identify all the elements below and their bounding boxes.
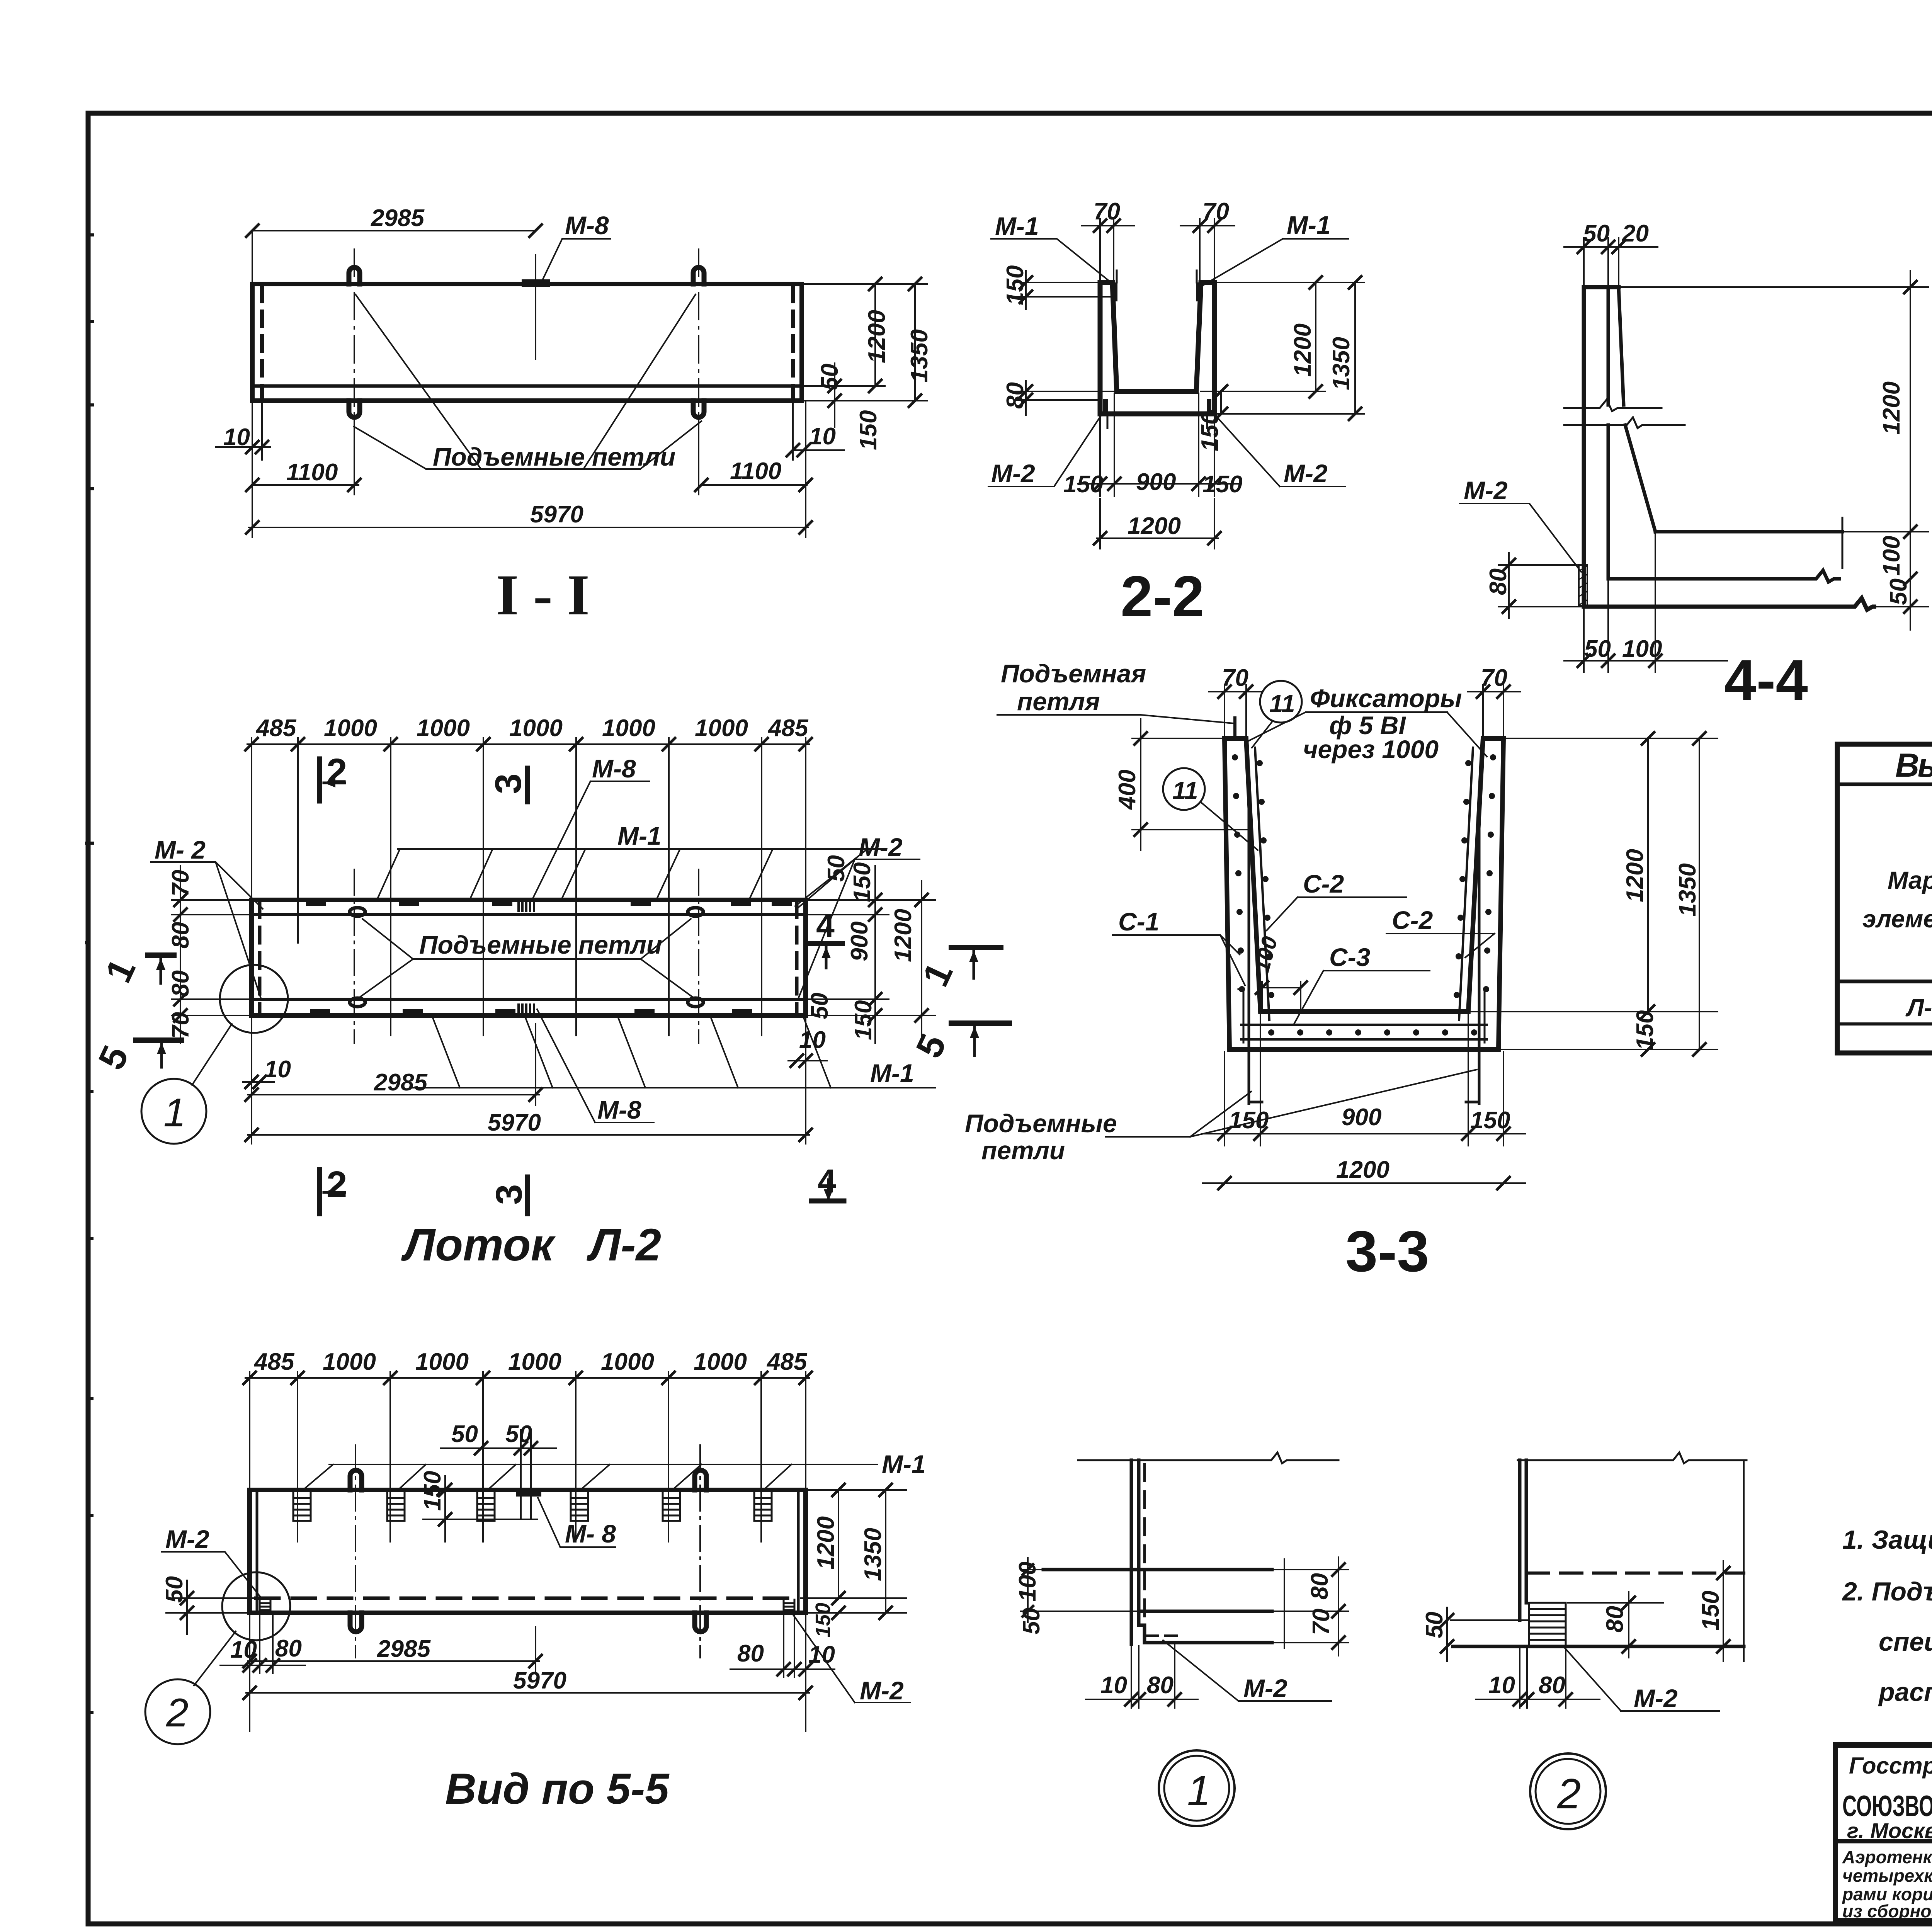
5-5 bottom dims 10 80 left <box>220 1615 305 1673</box>
detail 1 slab top line <box>1043 1568 1272 1571</box>
svg-text:485: 485 <box>767 715 809 742</box>
svg-text:1200: 1200 <box>1336 1156 1389 1183</box>
svg-text:1100: 1100 <box>730 458 781 485</box>
balloon detail 1 <box>1159 1750 1235 1826</box>
svg-text:80: 80 <box>167 970 194 997</box>
3-3 dim 400 left <box>1132 719 1248 850</box>
title block left row line <box>1835 1839 1932 1844</box>
svg-text:Л- 2: Л- 2 <box>1905 994 1932 1022</box>
svg-text:1350: 1350 <box>1674 863 1701 917</box>
svg-text:М-2: М-2 <box>1634 1684 1678 1713</box>
balloon circle 1 <box>141 1079 206 1144</box>
section mark 4 top <box>809 941 842 946</box>
detail 2 top line with break <box>1518 1452 1747 1463</box>
svg-text:150: 150 <box>849 862 876 902</box>
svg-text:3: 3 <box>488 774 529 794</box>
svg-text:150: 150 <box>850 1000 877 1040</box>
5-5 M-8 mark top middle <box>520 1490 538 1497</box>
svg-text:50: 50 <box>806 993 833 1019</box>
svg-text:50: 50 <box>451 1421 478 1447</box>
5-5 dim 5970 <box>246 1615 809 1731</box>
plan M-1 bottom right leader <box>410 1018 935 1088</box>
detail 2 M-2 leader <box>1564 1647 1719 1711</box>
3-3 left wall rebar line <box>1255 748 1269 1020</box>
detail 1 M-2 hidden plate dashed <box>1146 1636 1178 1643</box>
svg-text:М-2: М-2 <box>1284 459 1328 488</box>
title block outer box <box>1835 1745 1932 1920</box>
5-5 dims 50 50 <box>440 1430 556 1519</box>
plan right dim lines <box>788 866 935 1061</box>
3-3 bottom dim chain 150-900-150 <box>1202 1014 1526 1146</box>
svg-text:Аэротенки- смесители: Аэротенки- смесители <box>1842 1847 1932 1867</box>
wall outline 4-4 upper <box>1584 287 1619 603</box>
detail 1 wall dashed line <box>1143 1464 1146 1640</box>
dim 1100 left line 1-1 <box>252 418 359 495</box>
svg-text:80: 80 <box>1147 1672 1173 1699</box>
5-5 M-8 label leader <box>538 1498 615 1547</box>
svg-text:1000: 1000 <box>324 715 377 742</box>
svg-text:400: 400 <box>1114 770 1141 810</box>
wall inner line a 4-4 <box>1607 287 1610 405</box>
plan detail circle left end <box>220 965 288 1033</box>
plan bottom edge anchor marks M-1 <box>313 1009 749 1015</box>
svg-text:150: 150 <box>1202 471 1242 498</box>
svg-text:1200: 1200 <box>864 310 890 363</box>
3-3 right wall rebar line <box>1459 748 1473 1020</box>
svg-text:70: 70 <box>167 870 194 896</box>
svg-text:10: 10 <box>799 1027 826 1053</box>
svg-text:2985: 2985 <box>374 1069 428 1096</box>
svg-text:485: 485 <box>766 1349 808 1375</box>
svg-text:М-8: М-8 <box>565 211 609 240</box>
M-1 embed right 2-2 <box>1196 285 1201 299</box>
svg-text:1350: 1350 <box>860 1528 886 1581</box>
plan M-8 hatch mark bottom <box>519 1005 534 1015</box>
svg-text:М-2: М-2 <box>165 1525 209 1553</box>
5-5 left double line <box>256 1492 259 1611</box>
dim 1350 vertical right 1-1 <box>914 284 916 401</box>
dim 1100 right line 1-1 <box>699 418 807 495</box>
svg-text:10: 10 <box>223 424 250 451</box>
svg-text:50: 50 <box>816 364 843 390</box>
5-5 M-2 right plate <box>784 1600 794 1613</box>
plan M-8 hatch mark top <box>519 900 534 911</box>
dim 5970 line 1-1 <box>249 402 808 537</box>
svg-text:четырехкоридорные с разме.: четырехкоридорные с разме. <box>1842 1866 1932 1886</box>
svg-text:50: 50 <box>1583 220 1610 247</box>
svg-text:1. Защитный слой бетона - 2: 1. Защитный слой бетона - 20мм. <box>1842 1525 1932 1554</box>
svg-text:2-2: 2-2 <box>1121 564 1204 629</box>
svg-text:70: 70 <box>1481 665 1507 691</box>
M-2 embed right 2-2 <box>1207 401 1211 413</box>
svg-text:3-3: 3-3 <box>1345 1219 1429 1284</box>
detail 1 M-2 leader <box>1163 1640 1331 1701</box>
bottom exterior line 4-4 <box>1584 598 1874 610</box>
svg-text:2: 2 <box>1557 1770 1581 1818</box>
dim chain 150-900-150 2-2 <box>1078 393 1238 497</box>
3-3 bottom dim 1200 <box>1202 1182 1526 1184</box>
svg-text:Подъемные петли: Подъемные петли <box>419 930 662 959</box>
svg-text:специальной траверсой, не д: специальной траверсой, не допуская перед… <box>1879 1627 1932 1656</box>
plan dim extension verticals <box>252 738 806 1036</box>
svg-text:1200: 1200 <box>890 909 917 962</box>
3-3 dim 1200 vertical right <box>1647 738 1649 1012</box>
detail 2 dim 50 extension <box>1447 1607 1527 1662</box>
svg-text:150: 150 <box>811 1603 835 1638</box>
svg-text:С-3: С-3 <box>1329 943 1370 971</box>
M-8 plate mark on top edge <box>526 279 546 287</box>
detail 1 slab mid line <box>1139 1610 1272 1613</box>
5-5 M-2 left leader <box>162 1552 262 1599</box>
section mark 1 right <box>951 945 1001 950</box>
svg-text:5970: 5970 <box>530 501 583 528</box>
svg-text:1200: 1200 <box>1878 381 1905 435</box>
plan M-2 right leaders <box>797 859 920 998</box>
3-3 top dim 70 left <box>1209 685 1263 736</box>
lifting loop bottom-left 1-1 <box>349 401 360 417</box>
svg-text:1000: 1000 <box>694 1349 747 1375</box>
svg-text:11: 11 <box>1269 690 1295 718</box>
balloon detail 2 <box>1530 1753 1606 1829</box>
svg-text:485: 485 <box>253 1349 295 1375</box>
svg-text:10: 10 <box>809 423 836 450</box>
svg-text:I - I: I - I <box>496 563 590 627</box>
detail 1 right dim vertical <box>1274 1557 1349 1656</box>
svg-text:СОЮЗВОДОКАНАЛПРОЕКТ: СОЮЗВОДОКАНАЛПРОЕКТ <box>1842 1790 1932 1823</box>
svg-text:петля: петля <box>1017 687 1100 716</box>
svg-text:80: 80 <box>1485 568 1512 595</box>
svg-text:11: 11 <box>1172 777 1198 804</box>
dim 10 right 1-1 <box>793 402 844 460</box>
balloon 2 leader <box>194 1631 236 1685</box>
5-5 outline <box>250 1490 806 1613</box>
3-3 fixator circle 11 left <box>1163 768 1205 810</box>
3-3 label C-2 upper leaders <box>1267 897 1406 930</box>
plan bottom dim 10 <box>243 1081 274 1083</box>
beam left dashed edge <box>260 287 264 399</box>
svg-text:80: 80 <box>1306 1573 1333 1600</box>
svg-text:5970: 5970 <box>513 1667 566 1694</box>
svg-text:М-2: М-2 <box>859 833 903 861</box>
section mark 5 left <box>136 1037 182 1043</box>
loop axis dash-dot right <box>698 249 699 448</box>
5-5 M-2 right leader <box>793 1614 910 1702</box>
dim 1350 vertical right 2-2 <box>1354 282 1356 414</box>
5-5 left dim 50 <box>166 1580 253 1634</box>
svg-text:Подъемные петли: Подъемные петли <box>433 442 675 471</box>
svg-text:1000: 1000 <box>602 715 655 742</box>
svg-text:Выборка стали на 1 элемент: Выборка стали на 1 элемент <box>1895 747 1932 784</box>
3-3 label C-1 leaders <box>1113 935 1245 985</box>
right dim extensions 1-1 <box>804 284 927 401</box>
svg-text:900: 900 <box>846 922 873 961</box>
svg-text:М-2: М-2 <box>991 459 1035 488</box>
detail 2 right vertical thin <box>1743 1460 1745 1662</box>
detail 2 dim 150 right <box>1723 1561 1724 1662</box>
svg-text:1000: 1000 <box>415 1349 469 1375</box>
svg-text:900: 900 <box>1136 469 1176 495</box>
section mark 1 left <box>148 952 174 958</box>
svg-text:1200: 1200 <box>1128 513 1181 539</box>
plan left dim extensions <box>172 866 249 1043</box>
svg-text:М-1: М-1 <box>995 212 1039 240</box>
svg-text:1000: 1000 <box>509 715 563 742</box>
svg-text:70: 70 <box>1202 198 1229 225</box>
plan loops ovals <box>350 908 365 916</box>
detail 2 dim 80 right of plate <box>1568 1592 1663 1658</box>
3-3 label C-3 leader <box>1294 971 1430 1023</box>
3-3 top dim 70 right <box>1468 685 1520 736</box>
svg-text:С-2: С-2 <box>1392 906 1433 934</box>
3-3 label C-2 right leaders <box>1386 934 1495 957</box>
beam right dashed edge <box>791 287 795 399</box>
leader podemnye petli 1-1 <box>354 294 701 469</box>
svg-text:10: 10 <box>1488 1672 1515 1699</box>
plan inner wall lines <box>252 915 806 999</box>
steel table outer box <box>1837 744 1932 1053</box>
3-3 corner bar right <box>1484 989 1486 1043</box>
3-3 fixator circle 11 right <box>1260 681 1302 723</box>
svg-text:150: 150 <box>855 410 882 450</box>
frame registration ticks left border <box>85 235 94 1713</box>
3-3 corner bar left <box>1238 989 1243 1043</box>
svg-text:1200: 1200 <box>813 1516 839 1570</box>
5-5 bottom dims 80 10 right <box>730 1615 835 1677</box>
svg-text:2985: 2985 <box>371 205 425 231</box>
steel table data row <box>1905 994 1932 1022</box>
beam outline 1-1 <box>252 284 802 401</box>
svg-text:М-2: М-2 <box>1243 1674 1287 1702</box>
svg-text:из сборного железобетона: из сборного железобетона <box>1842 1901 1932 1921</box>
dim 70 right wall 2-2 <box>1180 219 1235 281</box>
detail 1 bottom dims <box>1086 1645 1198 1708</box>
svg-text:80: 80 <box>1602 1606 1628 1633</box>
plan left dashed line <box>258 902 262 1014</box>
ticks 2-2 <box>1094 219 1106 232</box>
slab interior top 4-4 <box>1655 530 1842 534</box>
svg-text:50: 50 <box>1584 636 1611 662</box>
svg-text:4-4: 4-4 <box>1724 648 1808 713</box>
lifting loop bottom-right 1-1 <box>693 401 704 417</box>
svg-text:2: 2 <box>327 751 347 793</box>
3-3 slab rebar lines <box>1241 1025 1487 1039</box>
wall inner face b2 4-4 <box>1625 425 1655 532</box>
plan loop axis lines <box>354 869 699 1043</box>
5-5 anchor plates hatched <box>293 1492 772 1521</box>
dim 70 left wall 2-2 <box>1082 219 1134 281</box>
detail 2 hidden dashed line <box>1527 1571 1744 1575</box>
detail 1 left dim lines <box>1020 1557 1137 1623</box>
svg-text:150: 150 <box>1197 412 1223 451</box>
3-3 dim 100 small <box>1262 981 1301 1013</box>
dim 2985 line 1-1 <box>252 231 536 281</box>
svg-text:100: 100 <box>1878 536 1905 576</box>
svg-text:10: 10 <box>808 1641 835 1668</box>
slab vertical tick right 4-4 <box>1842 518 1844 568</box>
3-3 fixator leaders <box>1202 722 1272 850</box>
section mark 3 bottom <box>525 1177 530 1214</box>
svg-text:М- 2: М- 2 <box>155 835 206 864</box>
svg-text:С-1: С-1 <box>1118 907 1159 936</box>
svg-text:1200: 1200 <box>1622 849 1648 902</box>
steel table title line <box>1837 782 1932 786</box>
svg-text:150: 150 <box>1470 1107 1510 1134</box>
detail 2 M-2 plate hatched <box>1529 1603 1566 1646</box>
3-3 fiksatory label underline and leaders <box>1248 712 1487 757</box>
detail 2 bottom dims 10 80 <box>1476 1648 1600 1708</box>
svg-text:10: 10 <box>230 1636 257 1663</box>
svg-text:1350: 1350 <box>906 329 933 383</box>
plan M-8 top leader <box>532 781 649 899</box>
wall inner face b 4-4 <box>1619 287 1624 405</box>
lifting loop top-left 1-1 <box>349 267 360 284</box>
plan M-1 leader line <box>377 849 881 906</box>
svg-text:1: 1 <box>1187 1767 1211 1815</box>
svg-text:485: 485 <box>255 715 297 742</box>
dim 1200 vertical right 1-1 <box>874 284 876 386</box>
svg-text:Подъемная: Подъемная <box>1001 659 1146 688</box>
5-5 loop axes <box>355 1445 700 1658</box>
5-5 top loops <box>350 1470 362 1490</box>
leader M-8 label 1-1 <box>540 239 611 285</box>
svg-text:50: 50 <box>161 1576 188 1603</box>
dim 50/150 vertical right 1-1 <box>804 363 835 427</box>
plan top dim line <box>247 743 809 745</box>
break line lower 4-4 <box>1564 417 1685 428</box>
M-8 vertical extension line <box>535 255 536 359</box>
plan dim 2985 <box>248 1017 539 1144</box>
plan podemnye petli leaders <box>360 919 692 997</box>
dim 1200 bottom 2-2 <box>1097 498 1218 549</box>
dim 1200 vertical right 2-2 <box>1315 282 1316 391</box>
svg-text:элемента: элемента <box>1862 905 1932 933</box>
detail 1 wall lines <box>1131 1460 1139 1644</box>
svg-text:150: 150 <box>1002 265 1029 305</box>
right extensions 2-2 <box>1201 282 1364 414</box>
svg-text:Фиксаторы: Фиксаторы <box>1310 684 1462 713</box>
section mark 3 top <box>525 768 530 802</box>
svg-text:1000: 1000 <box>417 715 470 742</box>
svg-text:10: 10 <box>264 1056 291 1083</box>
plan top edge anchor marks M-1 <box>309 900 789 906</box>
svg-text:70: 70 <box>167 1012 194 1039</box>
detail 2 bottom line <box>1453 1645 1744 1648</box>
5-5 bottom loops <box>350 1613 362 1632</box>
svg-text:Лоток Л-2: Лоток Л-2 <box>401 1219 661 1270</box>
svg-text:2. Подъем лотка за верхние: 2. Подъем лотка за верхние петли осущест… <box>1842 1577 1932 1606</box>
svg-text:г. Москва: г. Москва <box>1847 1818 1932 1843</box>
section mark 2 top <box>317 759 322 801</box>
steel table data row line <box>1837 1022 1932 1026</box>
plan outline <box>252 900 806 1015</box>
M-2 embed left 2-2 <box>1103 401 1108 413</box>
svg-text:1000: 1000 <box>508 1349 561 1375</box>
steel table sizes row line <box>1837 980 1932 983</box>
section mark 4 bottom <box>811 1199 844 1204</box>
svg-text:распора на стенки лотка.: распора на стенки лотка. <box>1878 1677 1932 1707</box>
svg-text:Вид по 5-5: Вид по 5-5 <box>445 1765 670 1813</box>
svg-text:50: 50 <box>505 1421 532 1447</box>
section mark 5 right <box>951 1020 1009 1026</box>
3-3 podemnaya petlya leader <box>997 715 1233 723</box>
svg-text:М-8: М-8 <box>592 754 636 783</box>
M-2 plate hatched 4-4 <box>1579 565 1587 606</box>
3-3 dim 1350 vertical right <box>1699 738 1700 1049</box>
detail 1 step notch <box>1139 1611 1145 1643</box>
5-5 M-2 left plate <box>260 1600 270 1613</box>
bottom dims 50 100 4-4 <box>1564 534 1727 672</box>
3-3 podemnye petli bottom leaders <box>1105 1070 1477 1137</box>
5-5 hidden dashed line <box>256 1597 797 1600</box>
3-3 top loop stub <box>1233 718 1236 738</box>
svg-text:80: 80 <box>167 922 194 949</box>
plan ticks top dims <box>245 738 258 750</box>
svg-text:М-1: М-1 <box>617 821 662 850</box>
loop axis dash-dot left <box>354 249 355 448</box>
3-3 dim 150 vertical right <box>1642 1043 1654 1056</box>
svg-text:1200: 1200 <box>1289 323 1316 377</box>
dim 150 vertical right 2-2 <box>1220 391 1222 414</box>
svg-text:М-1: М-1 <box>1287 211 1331 239</box>
plan M-8 bottom leader <box>537 1009 654 1122</box>
beam inner slab line 1-1 <box>252 384 802 388</box>
svg-text:80: 80 <box>737 1640 764 1667</box>
detail 1 top line with break <box>1078 1452 1338 1463</box>
detail 1 bottom line <box>1145 1641 1272 1645</box>
balloon circle 2 <box>145 1679 210 1744</box>
svg-text:4: 4 <box>818 1163 836 1200</box>
svg-text:петли: петли <box>981 1136 1065 1165</box>
break line upper 4-4 <box>1564 400 1662 411</box>
svg-text:М-2: М-2 <box>860 1676 904 1705</box>
svg-text:100: 100 <box>1622 636 1662 662</box>
svg-text:Подъемные: Подъемные <box>965 1109 1117 1138</box>
5-5 M-1 long leader <box>303 1464 877 1490</box>
dim 10 left 1-1 <box>216 402 270 460</box>
svg-text:20: 20 <box>1622 220 1649 247</box>
svg-text:3: 3 <box>488 1184 530 1205</box>
wall inner line a2 4-4 <box>1607 425 1610 577</box>
5-5 dim 1200 vertical right <box>838 1490 839 1598</box>
leader M-2 left 2-2 <box>988 409 1105 486</box>
5-5 right double line <box>797 1492 800 1611</box>
balloon 1 leader <box>192 1024 232 1085</box>
svg-text:2: 2 <box>166 1690 189 1735</box>
leader M-2 4-4 <box>1460 503 1581 572</box>
svg-text:150: 150 <box>1229 1107 1269 1134</box>
svg-text:М-2: М-2 <box>1464 476 1508 505</box>
right dim vertical 4-4 <box>1621 270 1928 630</box>
lifting loop top-right 1-1 <box>693 267 704 284</box>
leader M-1 left 2-2 <box>991 239 1114 285</box>
plan right dashed line <box>795 902 799 1014</box>
svg-text:М-8: М-8 <box>597 1095 641 1124</box>
top dims 50 20 4-4 <box>1564 238 1658 285</box>
3-3 loop legs <box>1249 804 1479 1104</box>
svg-text:80: 80 <box>1002 382 1029 409</box>
5-5 dim 150 vertical <box>423 1476 537 1542</box>
svg-text:50: 50 <box>1885 578 1912 605</box>
section mark 2 bottom <box>317 1170 322 1214</box>
svg-text:70: 70 <box>1222 665 1248 691</box>
svg-text:70: 70 <box>1308 1609 1335 1635</box>
5-5 right extensions <box>801 1490 906 1613</box>
5-5 top dim line <box>245 1377 809 1379</box>
svg-text:2985: 2985 <box>377 1636 431 1662</box>
aerotenki description <box>1842 1847 1932 1921</box>
svg-text:1: 1 <box>163 1090 186 1135</box>
3-3 right extensions <box>1470 738 1718 1049</box>
